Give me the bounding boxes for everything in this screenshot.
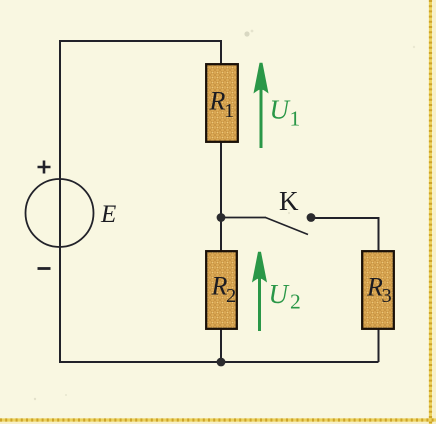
minus sign <box>38 267 51 270</box>
wire top <box>59 40 221 42</box>
svg-text:2: 2 <box>226 285 236 307</box>
svg-text:K: K <box>279 186 299 216</box>
wire left <box>59 40 61 362</box>
voltage source E <box>26 179 94 247</box>
wire middle branch <box>220 142 222 251</box>
plus sign <box>38 161 51 174</box>
arrow U2 <box>254 252 265 331</box>
resistor R1 <box>206 64 238 142</box>
svg-text:1: 1 <box>290 106 301 130</box>
svg-text:U: U <box>270 95 291 125</box>
wire R2 bottom lead <box>220 329 222 362</box>
resistor R3 <box>362 251 394 329</box>
svg-text:R: R <box>366 273 383 302</box>
wire R3 bottom lead <box>378 329 380 362</box>
wire R1 top lead <box>220 40 222 64</box>
resistor R2 <box>206 251 237 329</box>
switch contact dot <box>307 213 316 222</box>
switch K blade <box>266 218 309 235</box>
wire bottom <box>59 361 379 363</box>
svg-text:E: E <box>100 201 116 228</box>
arrow U1 <box>256 63 267 148</box>
svg-text:U: U <box>269 279 290 309</box>
svg-text:2: 2 <box>290 290 301 314</box>
wire switch feed <box>221 217 266 219</box>
svg-text:R: R <box>209 87 226 116</box>
svg-text:R: R <box>211 272 228 301</box>
wire switch to R3 <box>311 218 379 251</box>
node B (bottom junction) <box>217 358 226 367</box>
svg-text:3: 3 <box>382 285 392 307</box>
node A (middle junction) <box>217 213 226 222</box>
svg-text:1: 1 <box>224 100 234 122</box>
